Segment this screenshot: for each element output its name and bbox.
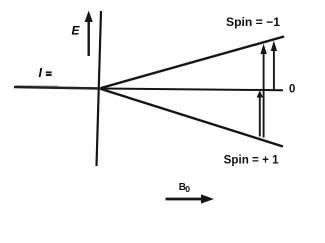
svg-text:0: 0 [289, 84, 295, 96]
E=0 reference line (right of origin) [101, 89, 283, 91]
vertical E axis line [97, 11, 102, 166]
lower Zeeman level line (Spin = +1) [101, 89, 283, 147]
transition arrow (0 line to upper level) [271, 41, 277, 90]
svg-text:I: I [39, 66, 43, 80]
E axis arrow [85, 11, 93, 57]
svg-text:Spin = −1: Spin = −1 [226, 15, 280, 29]
svg-text:E: E [72, 24, 81, 38]
upper Zeeman level line (Spin = -1) [101, 37, 284, 89]
transition arrow tall (lower level to upper level) [260, 44, 266, 138]
zero-field level line (left of origin) [14, 87, 101, 89]
B0 axis arrow [166, 194, 215, 203]
transition arrow short (lower level to 0 line) [257, 90, 263, 136]
svg-text:Spin = + 1: Spin = + 1 [224, 152, 279, 166]
svg-text:0: 0 [185, 184, 190, 194]
